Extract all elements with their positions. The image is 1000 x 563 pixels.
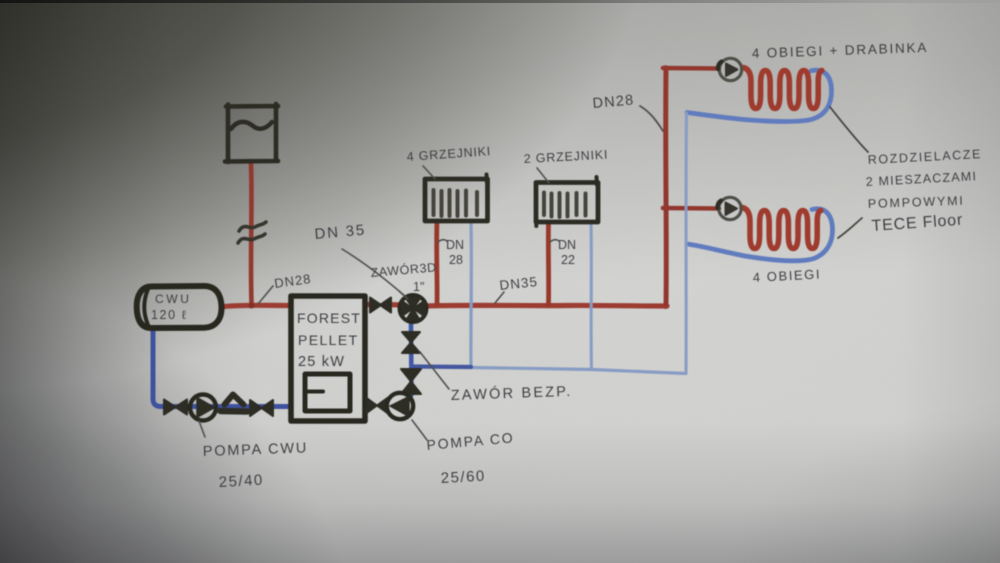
pointer line 4 grzejniki	[423, 166, 435, 179]
heating coil lower floor circuit	[742, 208, 821, 249]
wire: red branch to lower floor pump	[663, 206, 719, 211]
flue break symbol	[238, 222, 266, 243]
CWU tank 120l	[137, 286, 222, 328]
pointer line pompa CO	[412, 420, 427, 440]
pointer line zawor 3D	[399, 291, 408, 299]
wire: blue return header to boiler	[412, 367, 686, 374]
valve between boiler and CO pump	[366, 398, 388, 414]
wire: blue return hook of upper floor coil	[687, 70, 832, 121]
safety valve 2 on drop	[401, 369, 421, 394]
heating coil upper floor circuit	[743, 68, 822, 109]
safety valve 1 on drop	[402, 332, 420, 353]
valve CWU line left	[164, 400, 187, 415]
pointer line DN35 to 3-way valve	[342, 249, 406, 297]
pointer line DN28 riser	[640, 106, 663, 131]
pointer line pompa CWU	[199, 421, 205, 437]
wire: blue return drop radiator 2	[590, 223, 594, 369]
wire: red DN28 riser to floor circuits	[663, 68, 669, 304]
valve between boiler and 3-way valve	[370, 298, 391, 313]
check valve CWU line	[221, 395, 248, 412]
wire: red drop radiator 2	[546, 223, 551, 304]
wire: red drop radiator 1	[434, 221, 439, 304]
wire: blue return riser from floor circuits	[685, 113, 689, 372]
pointer line DN35 main	[495, 292, 504, 303]
wire: red supply main from tank to boiler	[224, 305, 291, 306]
pump lower floor circuit	[717, 197, 741, 219]
radiator 2 (2 grzejniki)	[536, 177, 598, 226]
valve CWU line right	[250, 400, 273, 416]
label CWU 120l	[151, 292, 191, 322]
pointer tilde DN28 radiator1	[438, 240, 447, 242]
label FOREST PELLET 25kW	[297, 310, 361, 370]
wire: red supply main from boiler to DN28 riser	[366, 305, 667, 307]
wire: blue CWU return from tank to boiler	[153, 329, 290, 407]
pump CWU 25/40	[190, 395, 216, 421]
pointer line zawor bezp	[420, 352, 449, 389]
pump CO 25/60	[387, 393, 413, 419]
pump upper floor circuit	[718, 58, 742, 80]
3-way mixing valve ZAWOR 3D	[400, 295, 427, 322]
wire: red pipe chimney drop	[249, 164, 254, 303]
wire: blue return hook of lower floor coil	[687, 209, 833, 261]
pointer tilde DN22 radiator2	[550, 240, 559, 242]
pointer line TECE floor	[838, 218, 862, 238]
pointer line rozdzielacze	[830, 107, 868, 152]
radiator 1 (4 grzejniki)	[425, 175, 488, 222]
pointer line 2 grzejniki	[537, 168, 549, 183]
boiler FOREST PELLET 25kW	[291, 296, 365, 421]
wire: red branch to upper floor pump	[663, 66, 719, 71]
pointer line DN28 left	[258, 286, 273, 304]
wire: blue return drop radiator 1	[469, 221, 473, 367]
wire: blue drop from 3-way valve to CO pump	[409, 322, 414, 395]
junction blobs on red main	[249, 65, 669, 309]
chimney flue box	[225, 104, 278, 162]
